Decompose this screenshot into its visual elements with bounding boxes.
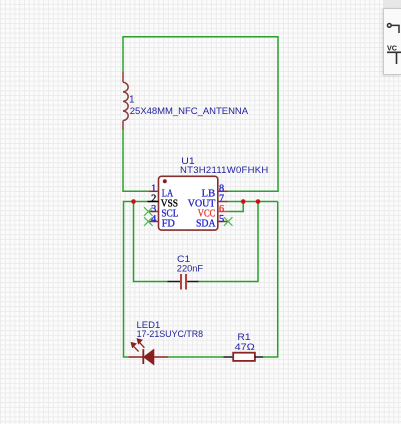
capacitor C1 lead right bbox=[187, 281, 199, 283]
pin 2 VSS stub bbox=[148, 201, 159, 203]
IC U1 NT3H2111W0FHKH body bbox=[159, 176, 218, 230]
pin 5 SDA stub bbox=[218, 221, 228, 223]
U1 pin1 marker dot bbox=[163, 179, 167, 183]
wire VOUT vertical to C1 bbox=[199, 202, 258, 282]
inductor L antenna bbox=[123, 72, 128, 130]
icon voltage-port bbox=[387, 52, 401, 64]
svg-text:17-21SUYC/TR8: 17-21SUYC/TR8 bbox=[137, 329, 204, 340]
junction VOUT-VCC bbox=[241, 199, 246, 204]
svg-text:VC: VC bbox=[387, 44, 397, 53]
wire pin8 LB horizontal bbox=[228, 190, 279, 192]
pin 7 VOUT stub bbox=[218, 201, 228, 203]
capacitor C1 lead left bbox=[168, 281, 181, 283]
junction VSS bbox=[131, 199, 136, 204]
junction VOUT-C1 bbox=[256, 199, 261, 204]
LED1 cathode bar bbox=[142, 349, 144, 364]
wire antenna right leg (LB net vertical) bbox=[277, 36, 279, 191]
wire VSS mid vertical to C1 bbox=[134, 202, 168, 282]
pin 4 no-connect X bbox=[144, 217, 153, 226]
pin 5 no-connect X bbox=[224, 217, 233, 226]
wire VOUT horizontal bbox=[228, 201, 278, 203]
capacitor C1 plates bbox=[180, 274, 182, 290]
wire VSS horizontal bbox=[124, 201, 148, 203]
LED1 lead left bbox=[128, 356, 143, 358]
resistor R1 lead right bbox=[255, 356, 263, 358]
pin 1 LA stub bbox=[148, 190, 158, 192]
LED1 triangle bbox=[144, 350, 154, 365]
wire antenna top bbox=[123, 36, 278, 38]
wire VOUT right vertical to bottom bbox=[263, 202, 278, 358]
LED1 emission arrow 1 bbox=[131, 343, 138, 352]
svg-text:FD: FD bbox=[162, 219, 176, 230]
svg-text:25X48MM_NFC_ANTENNA: 25X48MM_NFC_ANTENNA bbox=[130, 106, 249, 117]
wire antenna left leg upper bbox=[122, 36, 124, 72]
resistor R1 body bbox=[233, 353, 255, 361]
svg-text:4: 4 bbox=[151, 214, 156, 225]
svg-text:1: 1 bbox=[129, 94, 135, 105]
svg-text:SDA: SDA bbox=[196, 219, 216, 230]
pin 3 no-connect X bbox=[144, 207, 153, 216]
wire antenna left leg lower to pin1 bbox=[123, 130, 148, 191]
toolbar panel top-right bbox=[383, 0, 401, 8]
pin 3 SCL stub bbox=[148, 211, 158, 213]
wire VSS left vertical to LED bbox=[124, 201, 129, 357]
svg-text:47Ω: 47Ω bbox=[235, 342, 255, 353]
LED1 emission arrow 2 bbox=[137, 339, 144, 348]
svg-text:5: 5 bbox=[219, 214, 224, 225]
LED1 lead right bbox=[154, 356, 169, 358]
resistor R1 lead left bbox=[224, 356, 234, 358]
svg-text:NT3H2111W0FHKH: NT3H2111W0FHKH bbox=[180, 165, 268, 176]
svg-text:220nF: 220nF bbox=[177, 264, 203, 275]
wire VCC jog to VOUT bbox=[228, 202, 243, 212]
pin 6 VCC stub bbox=[218, 211, 228, 213]
wire LED to R1 bbox=[168, 356, 223, 358]
icon net-probe bbox=[387, 24, 399, 33]
pin 8 LB stub bbox=[218, 190, 228, 192]
pin 4 FD stub bbox=[148, 221, 158, 223]
